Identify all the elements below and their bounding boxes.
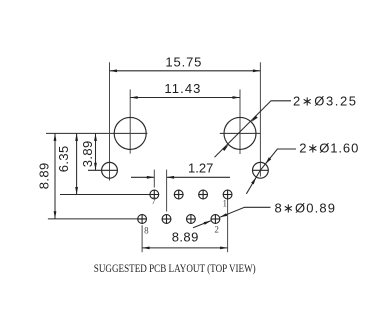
dimension 1.27 left tail with arrow	[131, 176, 154, 178]
wire: 11.43 left extension line / vertical cross of big hole 1	[129, 89, 131, 153]
pin hole 3	[198, 190, 208, 200]
wire: horizontal cross of right 1.60 hole	[252, 169, 269, 171]
wire: horizontal center line through big hole 2	[220, 132, 261, 134]
leader line for 2*3.25 label through big hole 2	[215, 101, 292, 157]
wire: top horizontal center line left segment through big hole 1	[46, 132, 147, 134]
dimension line 6.35 vertical	[76, 133, 78, 194]
svg-text:SUGGESTED PCB LAYOUT (TOP VIEW: SUGGESTED PCB LAYOUT (TOP VIEW)	[94, 263, 256, 275]
pin hole 2	[211, 214, 221, 224]
wire: horizontal cross of left 1.60 hole with 3.89 tick	[88, 169, 118, 171]
svg-text:3.89: 3.89	[80, 141, 95, 168]
svg-text:1: 1	[222, 198, 227, 208]
big mounting hole left 3.25	[114, 117, 146, 149]
svg-text:2: 2	[214, 224, 219, 234]
dimension 1.27 right tail with arrow	[167, 176, 230, 178]
svg-text:2∗Ø1.60: 2∗Ø1.60	[299, 141, 358, 156]
dimension line 15.75	[110, 70, 261, 72]
post hole left 1.60	[102, 162, 118, 178]
pin hole 4	[186, 214, 196, 224]
pin hole 7	[149, 190, 159, 200]
wire: bottom 8.89 extension line hole 1 column	[227, 200, 229, 253]
wire: 11.43 right extension line / vertical cross of big hole 2	[239, 89, 241, 154]
dimension line 8.89 bottom	[142, 247, 228, 249]
post hole right 1.60	[253, 162, 269, 178]
svg-text:6.35: 6.35	[56, 146, 71, 173]
pin hole 1	[223, 190, 233, 200]
svg-text:7: 7	[151, 196, 156, 206]
wire: 1.27 extension line hole 6 column	[166, 170, 168, 212]
svg-text:8.89: 8.89	[172, 230, 199, 245]
big mounting hole right 3.25	[224, 117, 256, 149]
pin holes 0.89: top row 7,5,3,1 bottom row 8,6,4,2	[137, 190, 232, 224]
wire: 15.75 left extension line / vertical cross of left 1.60 hole	[109, 62, 111, 180]
wire: 1.27 extension line hole 7 column	[153, 170, 155, 188]
dimension line 3.89 vertical	[95, 133, 97, 170]
wire: bottom 8.89 extension line hole 8 column	[141, 225, 143, 252]
leader line for 8*0.89 label pointing at hole 2	[220, 207, 270, 217]
svg-text:8: 8	[144, 225, 149, 235]
pin hole 5	[174, 190, 184, 200]
wire: reference line at 8.89 level to hole 8	[48, 218, 147, 220]
svg-text:11.43: 11.43	[164, 81, 200, 96]
wire: reference line at 6.35 level to hole 7	[60, 194, 150, 196]
leader line for 2*1.60 label through right 1.60 hole	[246, 149, 296, 194]
pin hole 6	[162, 214, 172, 224]
svg-text:8.89: 8.89	[36, 163, 51, 190]
dimension line 11.43	[130, 97, 240, 99]
svg-text:1.27: 1.27	[188, 160, 213, 175]
svg-text:15.75: 15.75	[165, 55, 201, 70]
svg-text:2∗Ø3.25: 2∗Ø3.25	[293, 94, 356, 109]
wire: 15.75 right extension line / vertical cross of right 1.60 hole	[259, 62, 261, 176]
svg-text:8∗Ø0.89: 8∗Ø0.89	[275, 201, 336, 216]
dimension line 8.89 vertical	[54, 133, 56, 218]
pin hole 8	[137, 214, 147, 224]
